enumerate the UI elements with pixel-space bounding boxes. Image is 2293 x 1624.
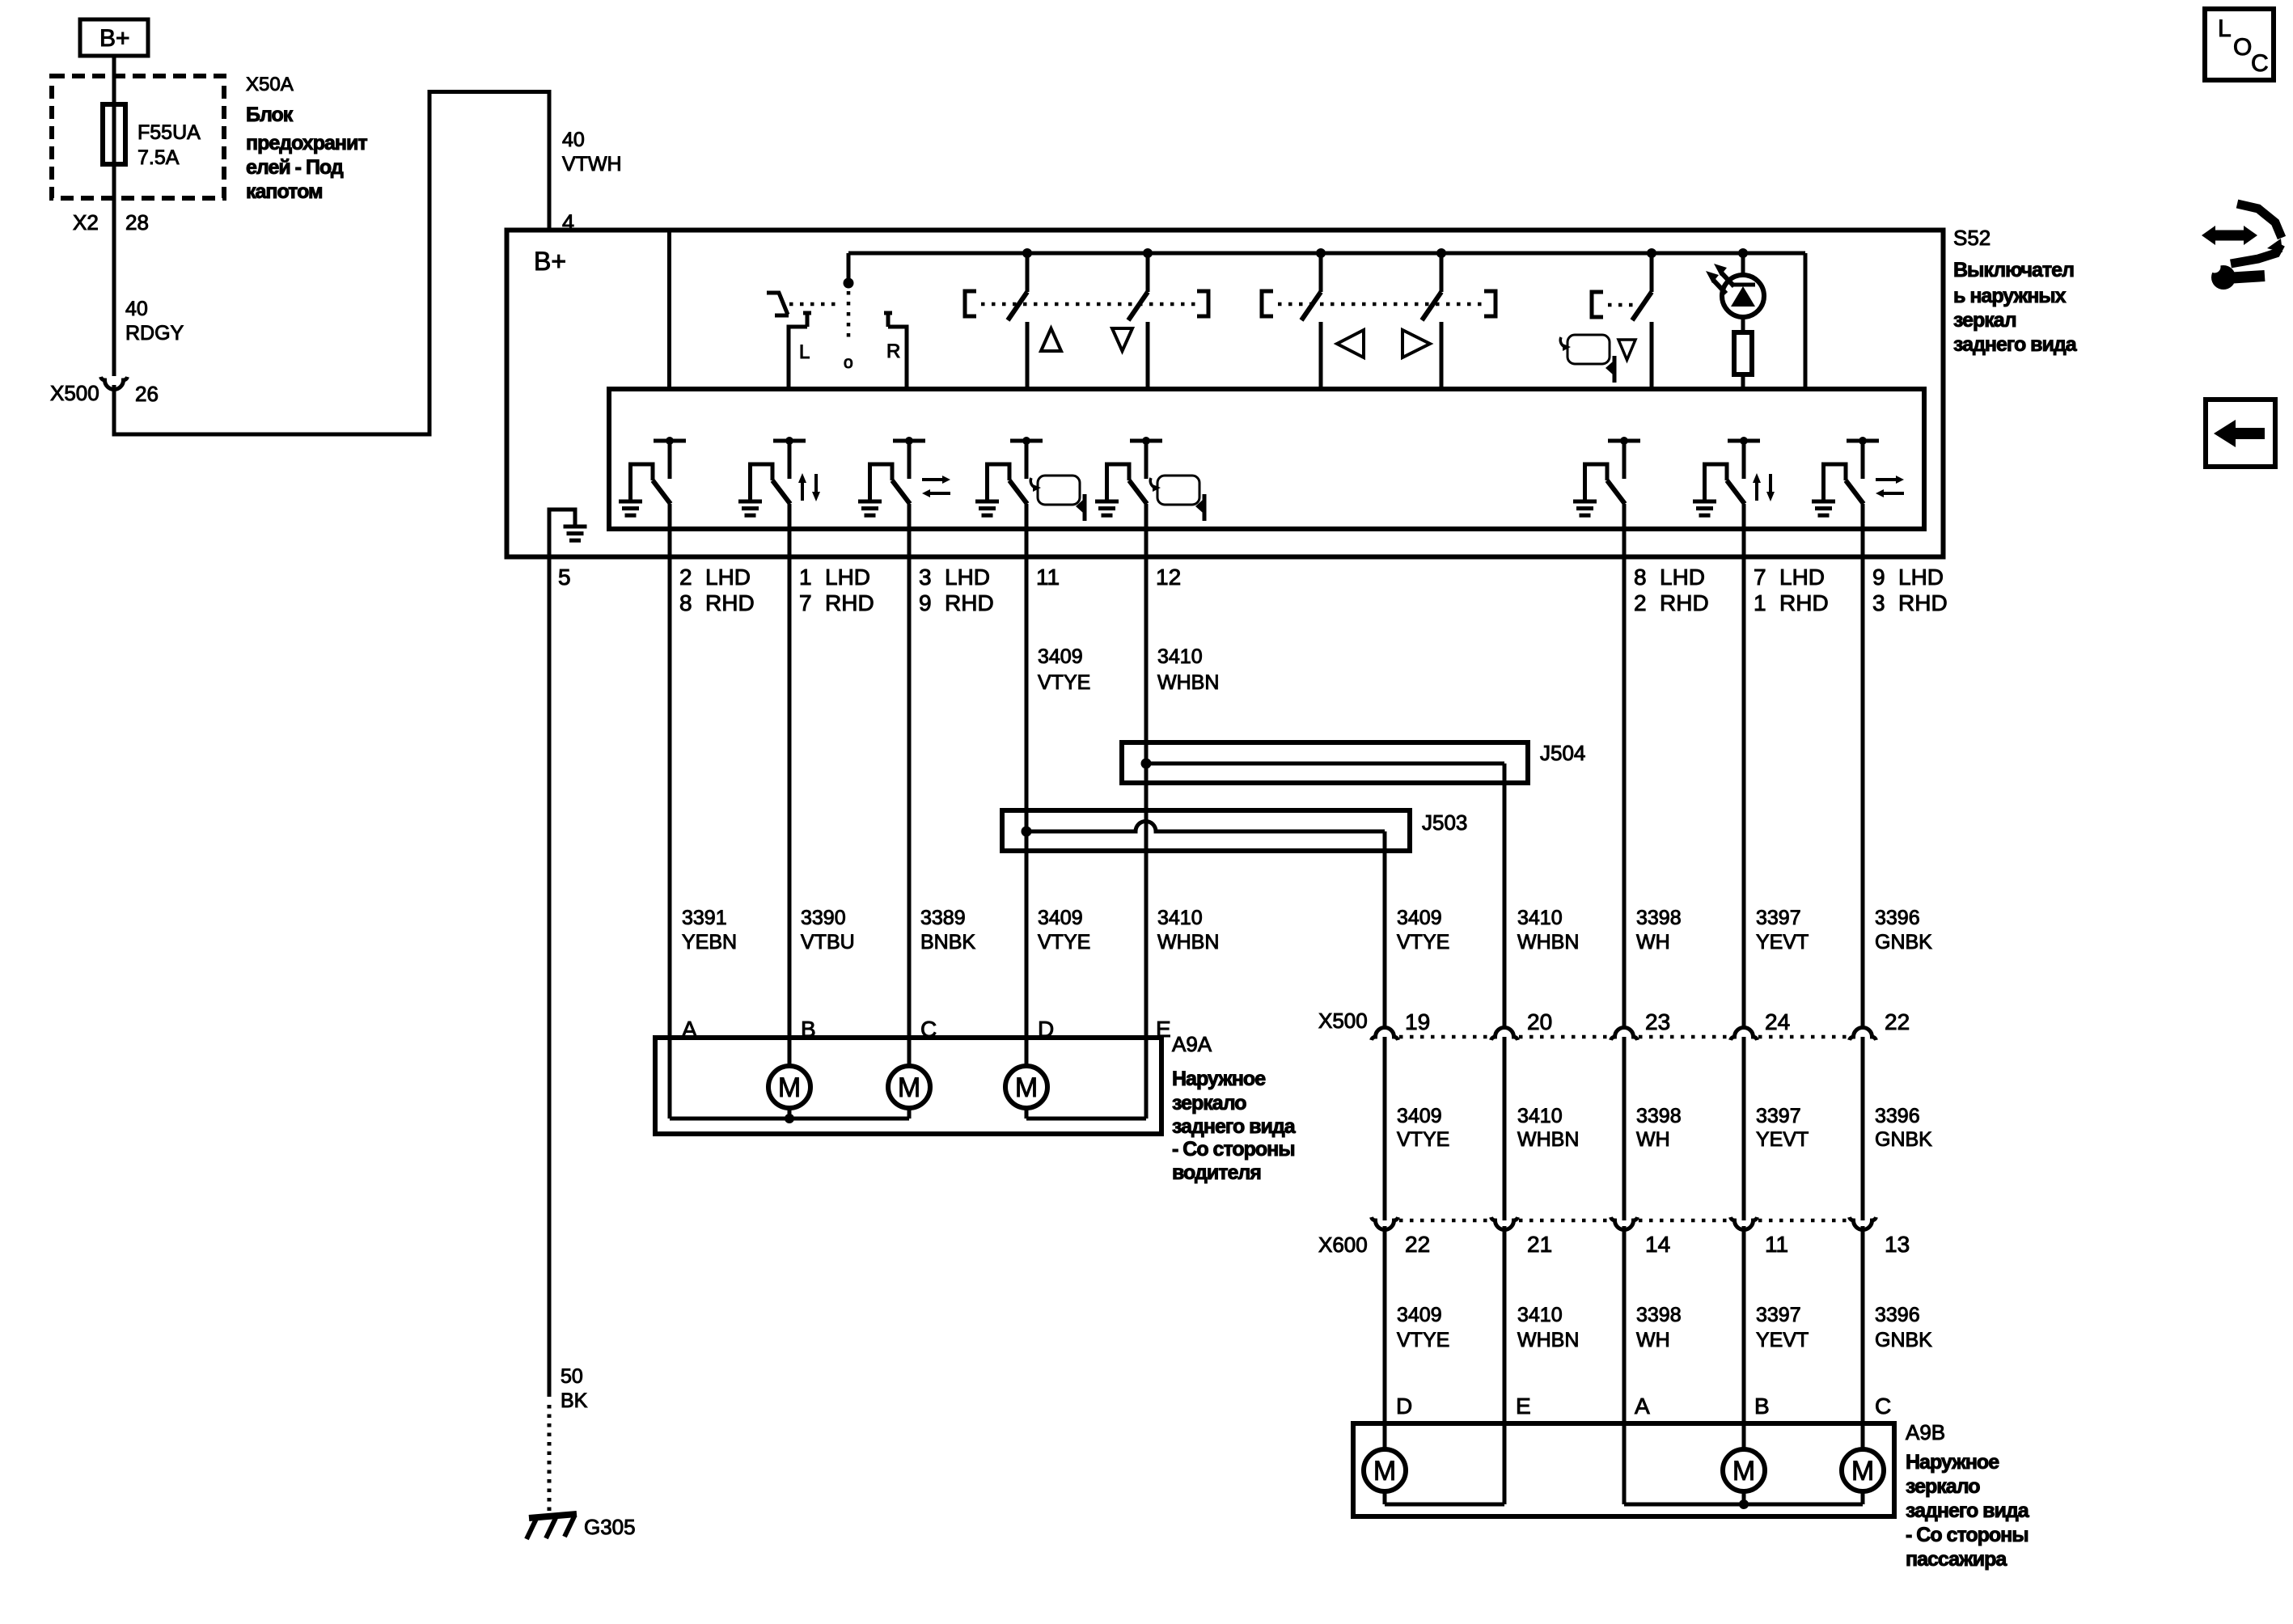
svg-text:GNBK: GNBK (1875, 1329, 1932, 1351)
svg-text:заднего вида: заднего вида (1172, 1115, 1297, 1138)
svg-text:7.5A: 7.5A (137, 146, 180, 169)
X600 dotted line (1399, 1219, 1490, 1223)
mirror left switch (1316, 248, 1326, 258)
svg-text:YEBN: YEBN (682, 931, 737, 954)
svg-text:GNBK: GNBK (1875, 931, 1932, 954)
wire 3396 X500-X600 (1861, 1037, 1865, 1220)
A9B motor C (1842, 1449, 1884, 1491)
X600 connector cups (1372, 1217, 1398, 1230)
up triangle (1041, 328, 1061, 351)
svg-text:14: 14 (1645, 1232, 1670, 1257)
svg-text:VTYE: VTYE (1038, 931, 1090, 954)
svg-text:3: 3 (1872, 590, 1885, 615)
svg-text:O: O (2233, 34, 2252, 61)
A9B mirror box (1353, 1423, 1894, 1516)
svg-text:GNBK: GNBK (1875, 1128, 1932, 1151)
wire pin11 to A9A-D (1025, 504, 1029, 1066)
svg-text:водителя: водителя (1172, 1161, 1261, 1184)
svg-text:RHD: RHD (945, 590, 994, 615)
svg-text:3410: 3410 (1517, 1105, 1563, 1127)
svg-text:LHD: LHD (1660, 565, 1705, 590)
svg-text:WHBN: WHBN (1157, 931, 1219, 954)
svg-text:LHD: LHD (825, 565, 870, 590)
svg-text:40: 40 (562, 129, 585, 151)
svg-text:зеркало: зеркало (1172, 1092, 1246, 1114)
fold group bracket (1592, 292, 1603, 317)
svg-text:3410: 3410 (1517, 907, 1563, 929)
svg-text:23: 23 (1645, 1009, 1670, 1034)
svg-text:3410: 3410 (1517, 1304, 1563, 1326)
svg-text:VTYE: VTYE (1397, 931, 1449, 954)
svg-text:3391: 3391 (682, 907, 727, 929)
svg-text:VTWH: VTWH (562, 153, 622, 176)
svg-text:50: 50 (561, 1365, 583, 1388)
svg-text:капотом: капотом (246, 180, 323, 203)
svg-text:R: R (886, 340, 900, 362)
svg-text:G305: G305 (584, 1515, 636, 1539)
adjust-mirror icon (2214, 230, 2245, 241)
svg-text:- Со стороны: - Со стороны (1906, 1524, 2029, 1546)
switch pin8 (passenger select) (1608, 439, 1640, 443)
fold mirror icon (1567, 335, 1610, 364)
A9A motor B (768, 1066, 810, 1108)
svg-text:X500: X500 (1318, 1009, 1368, 1033)
svg-text:21: 21 (1527, 1232, 1552, 1257)
wire pin12 to A9A-E (1144, 504, 1149, 1119)
switch pin7 (passenger up/down) (1728, 439, 1760, 443)
svg-text:заднего вида: заднего вида (1906, 1499, 2030, 1522)
svg-text:Выключател: Выключател (1953, 259, 2074, 281)
left-right group right bracket (1484, 291, 1496, 316)
svg-text:X2: X2 (73, 210, 99, 235)
S52 ground pin5 hook (549, 510, 575, 556)
svg-text:VTYE: VTYE (1397, 1128, 1449, 1151)
LED arrows (1721, 273, 1734, 286)
wire 3397 X500-X600 (1742, 1037, 1746, 1220)
svg-text:7: 7 (799, 590, 812, 615)
left-right group left bracket (1262, 291, 1273, 316)
svg-text:3390: 3390 (801, 907, 846, 929)
svg-text:F55UA: F55UA (137, 121, 201, 144)
right triangle (1402, 330, 1430, 357)
L-o-R mechanical dotted link (847, 291, 851, 338)
svg-text:3397: 3397 (1756, 907, 1801, 929)
mirror right switch (1436, 248, 1446, 258)
svg-text:WHBN: WHBN (1517, 1329, 1579, 1351)
switch pin9 (passenger left/right) (1847, 439, 1879, 443)
A9A motor C (888, 1066, 930, 1108)
svg-text:E: E (1516, 1394, 1531, 1419)
svg-text:RHD: RHD (1779, 590, 1829, 615)
LED resistor (1741, 317, 1745, 332)
wire B+ feed into inner box (667, 232, 671, 389)
svg-text:M: M (898, 1072, 920, 1103)
svg-text:M: M (1851, 1456, 1874, 1487)
svg-text:VTYE: VTYE (1038, 671, 1090, 694)
wire 3409 to A9B-D (1383, 1226, 1387, 1449)
svg-text:елей - Под: елей - Под (246, 156, 344, 179)
wire pin8 to X500-23 (1622, 504, 1627, 1027)
R contact and output (884, 311, 892, 315)
svg-text:RDGY: RDGY (125, 322, 184, 345)
svg-text:RHD: RHD (1660, 590, 1709, 615)
svg-text:LHD: LHD (1779, 565, 1825, 590)
wire 3397 to A9B-B (1742, 1226, 1746, 1449)
svg-text:X500: X500 (50, 381, 99, 405)
X500 dotted line (1399, 1035, 1490, 1039)
wire pin1 to A9A-B (788, 504, 792, 1066)
svg-text:Наружное: Наружное (1906, 1451, 1999, 1474)
svg-text:3410: 3410 (1157, 645, 1203, 668)
svg-text:13: 13 (1885, 1232, 1910, 1257)
A9B motor B (1723, 1449, 1765, 1491)
svg-text:3396: 3396 (1875, 907, 1920, 929)
A9A mirror box (655, 1038, 1161, 1134)
svg-text:заднего вида: заднего вида (1953, 333, 2078, 356)
mirror up switch (1022, 248, 1032, 258)
svg-text:M: M (1373, 1456, 1396, 1487)
svg-text:WH: WH (1636, 1128, 1670, 1151)
svg-text:3398: 3398 (1636, 1105, 1682, 1127)
L-o-R selector common (847, 253, 851, 280)
svg-text:LHD: LHD (1898, 565, 1944, 590)
X500 connector arcs (1372, 1028, 1398, 1041)
svg-text:11: 11 (1036, 565, 1060, 590)
switch pin2 (driver select) (654, 439, 686, 443)
fold small down triangle (1618, 340, 1635, 360)
splice J503 box (1002, 810, 1410, 851)
svg-text:LHD: LHD (705, 565, 751, 590)
mirror down switch (1143, 248, 1153, 258)
fuse F55UA (103, 104, 125, 164)
A9B bus A-C (1624, 1503, 1863, 1507)
splice J504 wire (1141, 759, 1152, 769)
chassis ground G305 (529, 1514, 577, 1518)
LOC legend box (2205, 9, 2274, 80)
wire 3410 to A9B-E (1503, 1226, 1507, 1504)
wire 3409 X500-X600 (1383, 1037, 1387, 1220)
A9A bus A-C (670, 1117, 909, 1121)
fold switch (1647, 248, 1656, 258)
A9A bus D-E (1026, 1117, 1146, 1121)
A9A motor D (1005, 1066, 1047, 1108)
wire pin2 to A9A-A (668, 504, 672, 1119)
switch pin3 (driver left/right) (893, 439, 925, 443)
svg-text:WH: WH (1636, 931, 1670, 954)
svg-text:S52: S52 (1953, 226, 1991, 250)
svg-text:VTYE: VTYE (1397, 1329, 1449, 1351)
svg-text:Наружное: Наружное (1172, 1068, 1266, 1090)
left triangle (1337, 330, 1364, 357)
svg-text:X50A: X50A (246, 74, 294, 95)
svg-text:3409: 3409 (1038, 907, 1083, 929)
svg-text:3398: 3398 (1636, 907, 1682, 929)
svg-text:J504: J504 (1540, 741, 1585, 765)
svg-text:RHD: RHD (825, 590, 874, 615)
svg-text:9: 9 (919, 590, 932, 615)
svg-text:WHBN: WHBN (1157, 671, 1219, 694)
svg-text:3409: 3409 (1397, 1304, 1442, 1326)
wire B+ to fuse and down to X500 (112, 56, 116, 376)
svg-text:22: 22 (1885, 1009, 1910, 1034)
B+ bus inside S52 (848, 252, 1805, 256)
svg-text:предохранит: предохранит (246, 132, 367, 154)
svg-text:J503: J503 (1422, 810, 1467, 835)
S52 inner contact box (609, 389, 1924, 529)
svg-text:3410: 3410 (1157, 907, 1203, 929)
fuse block X50A dashed box (52, 76, 224, 198)
svg-text:WHBN: WHBN (1517, 1128, 1579, 1151)
LED circle (1722, 275, 1764, 317)
svg-text:3409: 3409 (1397, 1105, 1442, 1127)
svg-text:24: 24 (1765, 1009, 1790, 1034)
wire pin5 to ground (548, 557, 552, 1397)
svg-text:A9B: A9B (1906, 1420, 1945, 1444)
svg-text:LHD: LHD (945, 565, 990, 590)
svg-text:ь наружных: ь наружных (1953, 285, 2067, 307)
wire 3410 X500-X600 (1503, 1037, 1507, 1220)
LED wire from bus (1738, 248, 1748, 258)
svg-text:8: 8 (679, 590, 692, 615)
svg-text:1: 1 (1754, 590, 1766, 615)
svg-text:19: 19 (1405, 1009, 1430, 1034)
B+ supply box (80, 19, 148, 56)
svg-text:BNBK: BNBK (920, 931, 975, 954)
svg-text:40: 40 (125, 298, 148, 320)
svg-text:22: 22 (1405, 1232, 1430, 1257)
splice J503 wire (1022, 827, 1032, 837)
svg-text:B+: B+ (534, 247, 566, 276)
svg-text:YEVT: YEVT (1756, 931, 1809, 954)
svg-text:RHD: RHD (1898, 590, 1948, 615)
svg-text:C: C (2251, 50, 2269, 77)
svg-text:YEVT: YEVT (1756, 1329, 1809, 1351)
svg-text:WHBN: WHBN (1517, 931, 1579, 954)
svg-text:11: 11 (1765, 1232, 1788, 1257)
svg-text:12: 12 (1156, 565, 1181, 590)
wire 3398 X500-X600 (1622, 1037, 1627, 1220)
svg-text:L: L (2218, 15, 2232, 42)
svg-text:- Со стороны: - Со стороны (1172, 1138, 1295, 1161)
svg-text:28: 28 (125, 210, 149, 235)
svg-text:3396: 3396 (1875, 1304, 1920, 1326)
svg-text:X600: X600 (1318, 1233, 1368, 1257)
svg-text:зеркал: зеркал (1953, 309, 2016, 332)
svg-text:L: L (799, 341, 810, 363)
L-o-R selector blade (767, 293, 788, 315)
svg-text:2: 2 (679, 565, 692, 590)
svg-text:3397: 3397 (1756, 1105, 1801, 1127)
svg-text:D: D (1396, 1394, 1412, 1419)
wire 3398 to A9B-A (1622, 1226, 1627, 1504)
svg-text:20: 20 (1527, 1009, 1552, 1034)
A9B bus D-E (1385, 1503, 1504, 1507)
svg-text:M: M (778, 1072, 801, 1103)
svg-text:M: M (1015, 1072, 1038, 1103)
switch pin12 (fold) (1130, 439, 1162, 443)
wire pin3 to A9A-C (907, 504, 912, 1066)
svg-text:M: M (1732, 1456, 1755, 1487)
svg-text:3396: 3396 (1875, 1105, 1920, 1127)
svg-text:3389: 3389 (920, 907, 966, 929)
svg-text:5: 5 (558, 565, 571, 590)
wire bus right corner down (1804, 253, 1808, 389)
svg-text:3398: 3398 (1636, 1304, 1682, 1326)
svg-text:пассажира: пассажира (1906, 1548, 2007, 1571)
svg-text:26: 26 (135, 382, 159, 406)
svg-text:3409: 3409 (1397, 907, 1442, 929)
switch pin1 (driver up/down) (773, 439, 806, 443)
LED diode symbol (1731, 283, 1755, 287)
svg-text:RHD: RHD (705, 590, 755, 615)
svg-text:3409: 3409 (1038, 645, 1083, 668)
S52 mirror switch box (507, 230, 1944, 557)
wire X500-26 to S52 pin 4 (114, 92, 549, 435)
fold flag (1613, 356, 1617, 383)
svg-text:WH: WH (1636, 1329, 1670, 1351)
wire pin7 to X500-24 (1742, 504, 1746, 1027)
svg-text:B: B (1754, 1394, 1770, 1419)
up-down group right bracket (1197, 291, 1208, 316)
svg-text:C: C (1875, 1394, 1891, 1419)
connector X500 pin 26 (in-line) (101, 377, 128, 390)
svg-text:7: 7 (1754, 565, 1766, 590)
svg-text:A9A: A9A (1172, 1032, 1212, 1056)
wire pin9 to X500-22 (1861, 504, 1865, 1027)
up-down group left bracket (965, 291, 976, 316)
svg-text:3: 3 (919, 565, 932, 590)
back arrow icon (2206, 400, 2275, 467)
svg-text:8: 8 (1634, 565, 1647, 590)
A9B motor D (1364, 1449, 1406, 1491)
svg-text:9: 9 (1872, 565, 1885, 590)
svg-text:VTBU: VTBU (801, 931, 855, 954)
svg-text:A: A (1635, 1394, 1650, 1419)
fold group dotted link (1608, 303, 1635, 307)
up-down group dotted link (981, 302, 1200, 307)
down triangle (1112, 328, 1132, 351)
svg-text:o: o (844, 353, 853, 372)
svg-text:зеркало: зеркало (1906, 1475, 1980, 1498)
svg-text:2: 2 (1634, 590, 1647, 615)
svg-text:1: 1 (799, 565, 812, 590)
svg-text:Блок: Блок (246, 104, 294, 126)
svg-text:YEVT: YEVT (1756, 1128, 1809, 1151)
left-right group dotted link (1278, 302, 1488, 307)
svg-text:B+: B+ (99, 25, 130, 52)
wire 3396 to A9B-C (1861, 1226, 1865, 1449)
svg-text:BK: BK (561, 1389, 588, 1412)
svg-text:3397: 3397 (1756, 1304, 1801, 1326)
L contact and output (803, 311, 811, 315)
splice J504 box (1122, 742, 1528, 783)
switch pin11 (fold) (1010, 439, 1043, 443)
